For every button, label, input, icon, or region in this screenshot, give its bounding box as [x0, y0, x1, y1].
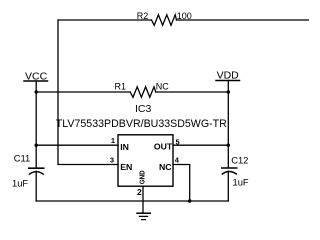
svg-text:1uF: 1uF — [12, 177, 28, 188]
svg-text:IC3: IC3 — [135, 103, 152, 115]
svg-text:VCC: VCC — [25, 70, 48, 82]
svg-text:NC: NC — [159, 162, 172, 172]
svg-text:R2: R2 — [137, 11, 149, 21]
svg-text:OUT: OUT — [154, 142, 173, 152]
svg-text:C12: C12 — [231, 155, 248, 166]
svg-text:1: 1 — [111, 136, 115, 145]
svg-text:3: 3 — [110, 156, 114, 165]
svg-text:EN: EN — [120, 162, 132, 172]
svg-text:VDD: VDD — [217, 70, 240, 82]
svg-text:GND: GND — [137, 170, 146, 185]
svg-text:100: 100 — [177, 11, 192, 21]
svg-text:2: 2 — [137, 187, 142, 197]
svg-text:NC: NC — [156, 82, 169, 92]
svg-text:C11: C11 — [14, 152, 31, 163]
svg-text:R1: R1 — [115, 82, 127, 92]
svg-text:IN: IN — [120, 142, 129, 152]
svg-text:TLV75533PDBVR/BU33SD5WG-TR: TLV75533PDBVR/BU33SD5WG-TR — [56, 118, 227, 130]
svg-text:1uF: 1uF — [233, 176, 249, 187]
svg-text:5: 5 — [176, 137, 180, 146]
